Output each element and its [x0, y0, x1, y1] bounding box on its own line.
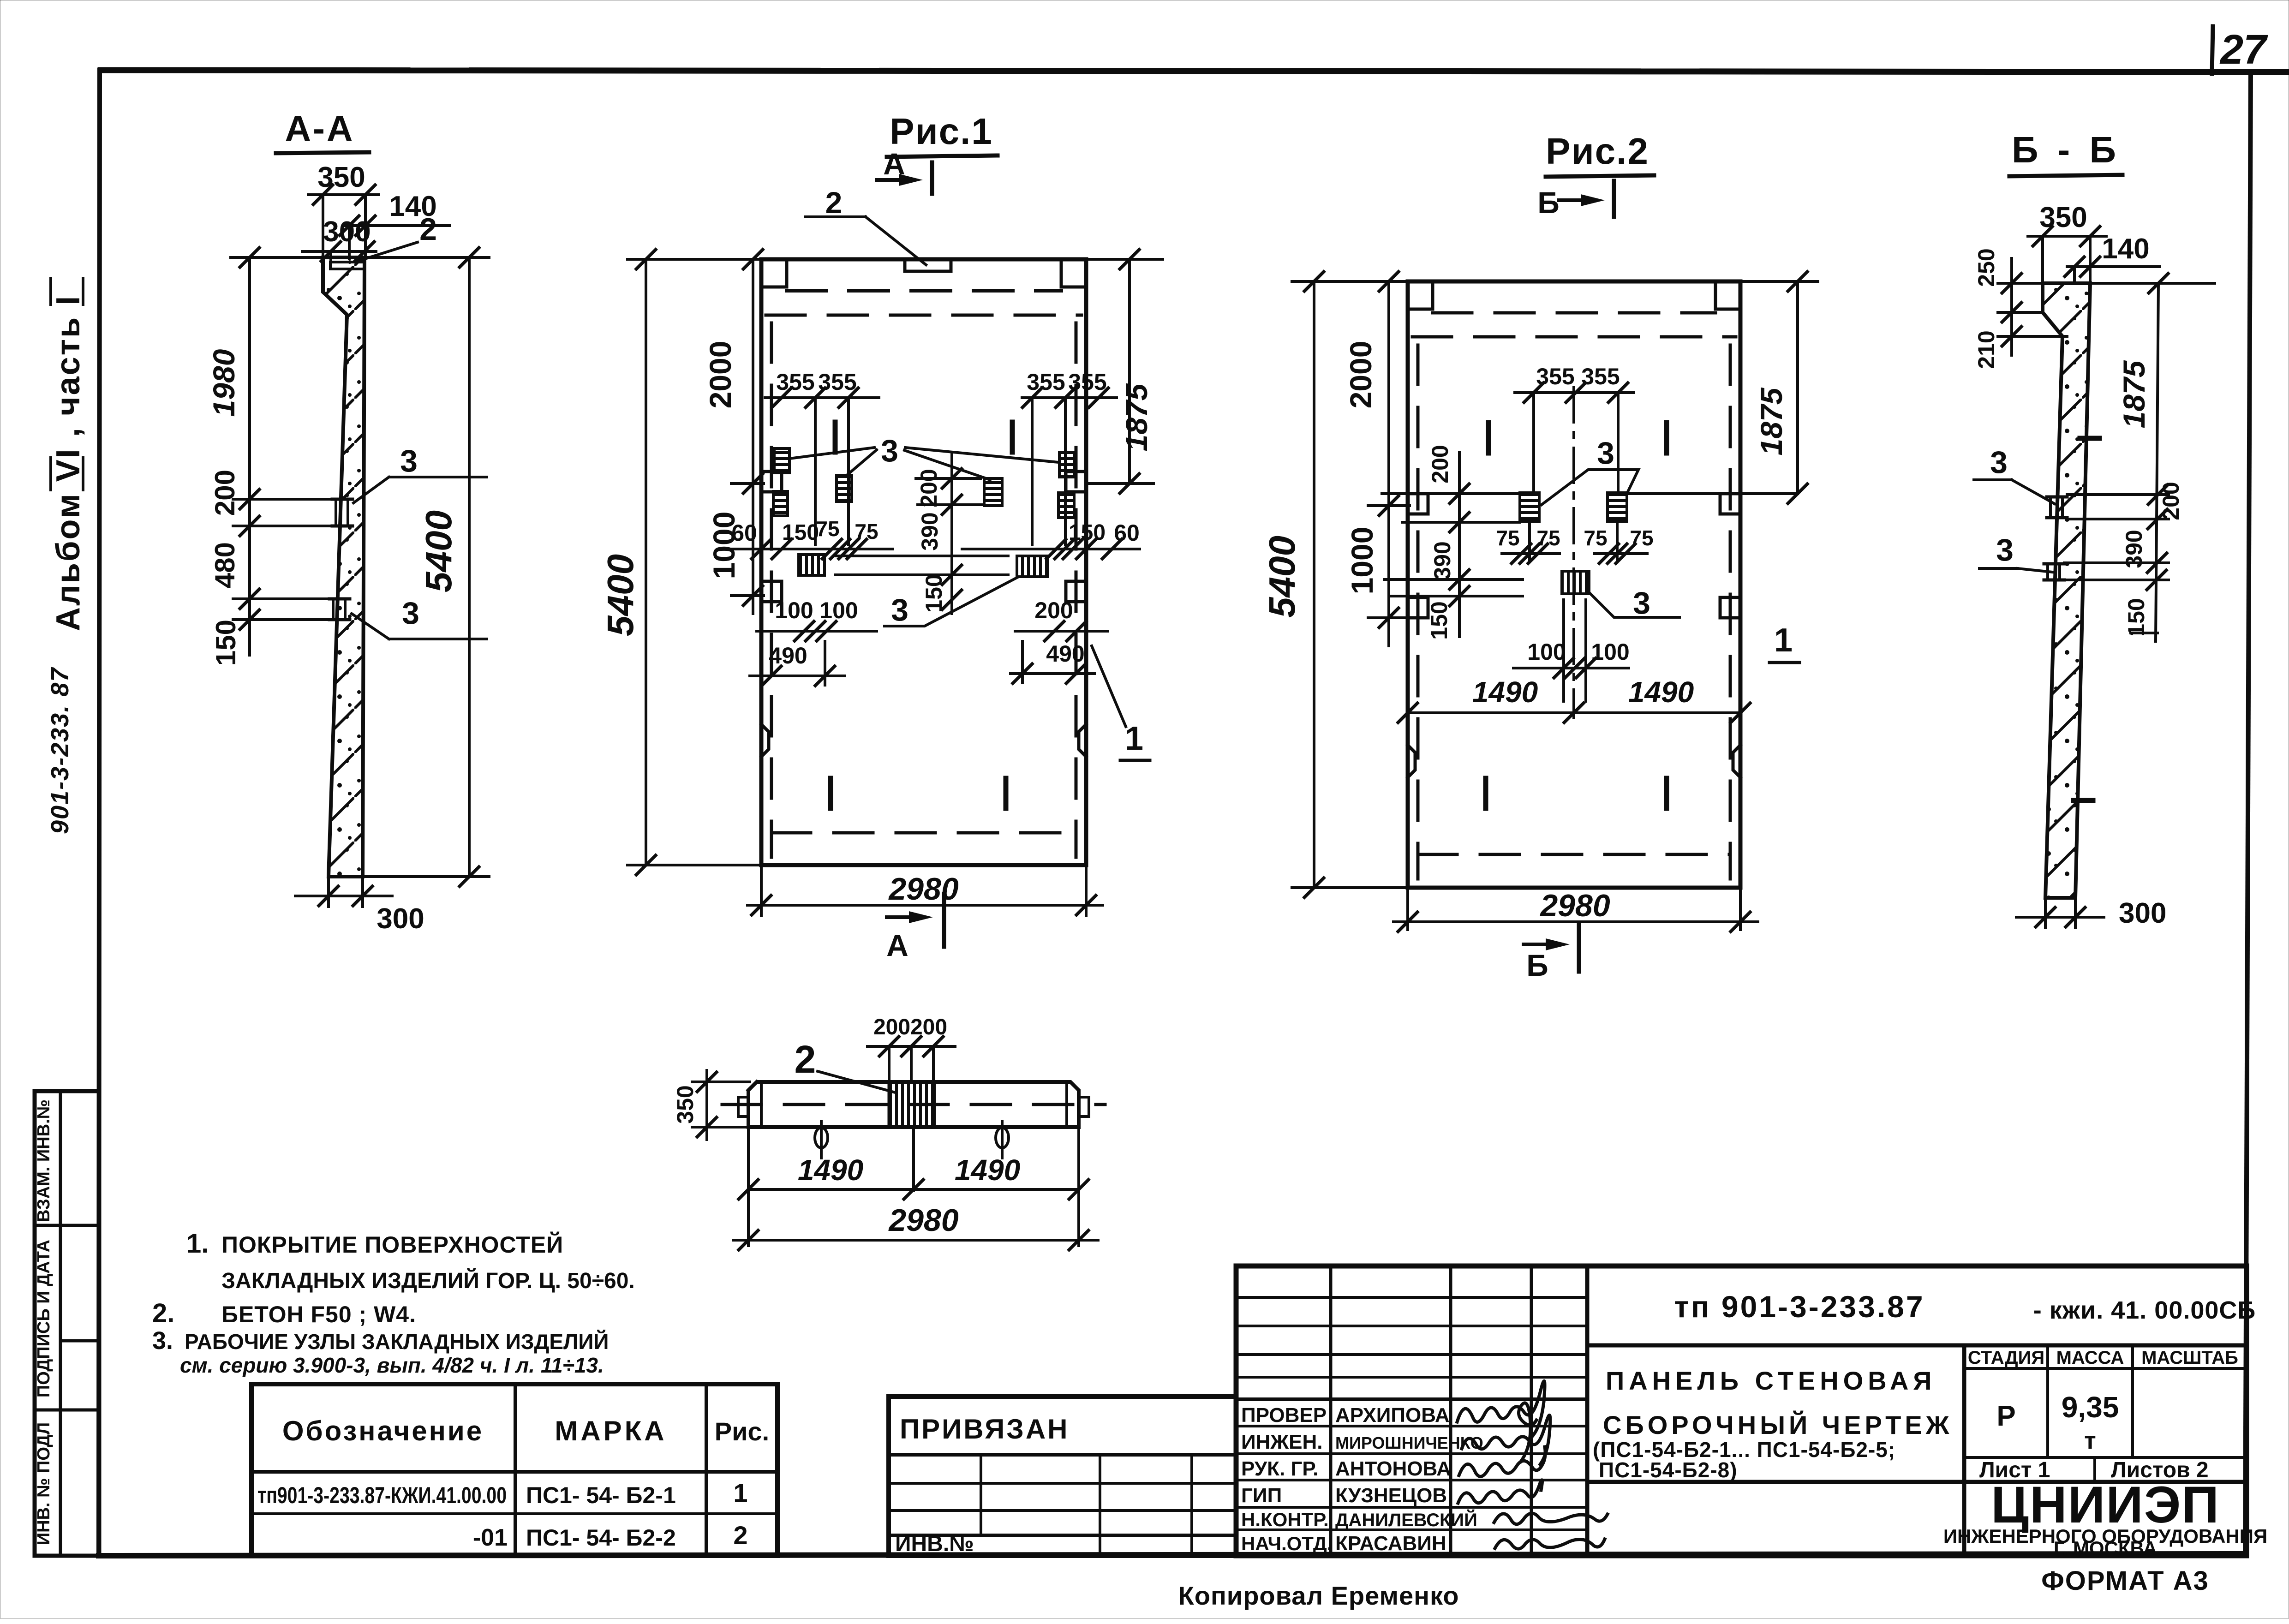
svg-text:БЕТОН F50 ; W4.: БЕТОН F50 ; W4.	[221, 1302, 416, 1327]
svg-text:АНТОНОВА: АНТОНОВА	[1335, 1457, 1451, 1480]
svg-text:3: 3	[1996, 532, 2014, 567]
left outer dimension 5400	[1261, 272, 1408, 897]
section mark B top	[1537, 181, 1614, 220]
svg-text:3.: 3.	[152, 1327, 173, 1355]
dimension 100 100	[1513, 600, 1630, 701]
bottom dimension 2980	[747, 867, 1103, 916]
svg-text:150: 150	[210, 620, 241, 666]
svg-text:Б - Б: Б - Б	[2012, 129, 2121, 170]
center vertical dimension 200 390 150	[835, 454, 1008, 614]
embed plates item 3 row upper	[773, 448, 1075, 518]
left margin album text	[50, 278, 87, 631]
label 3 lower with leader	[885, 578, 1017, 627]
embed plates item 3 row middle vertical hatch	[799, 555, 1047, 577]
bottom dimension 2980	[1393, 888, 1758, 931]
svg-text:3: 3	[402, 596, 419, 631]
svg-text:А: А	[886, 928, 908, 962]
stage mass scale header	[1964, 1345, 2247, 1457]
svg-text:Обозначение: Обозначение	[282, 1415, 484, 1446]
svg-text:2000: 2000	[703, 341, 737, 409]
title block signature grid	[1236, 1266, 1587, 1556]
svg-text:300: 300	[377, 903, 424, 935]
signature names	[1335, 1404, 1483, 1555]
svg-text:200: 200	[2158, 482, 2184, 520]
sheet number 27	[2212, 26, 2268, 74]
svg-text:РАБОЧИЕ УЗЛЫ ЗАКЛАДНЫХ ИЗДЕ: РАБОЧИЕ УЗЛЫ ЗАКЛАДНЫХ ИЗДЕЛИЙ	[185, 1330, 609, 1354]
svg-text:3: 3	[1597, 436, 1614, 471]
svg-text:ПС1- 54- Б2-1: ПС1- 54- Б2-1	[526, 1482, 676, 1508]
svg-text:355: 355	[1581, 364, 1620, 389]
left margin stamp boxes	[34, 1091, 99, 1556]
svg-text:75: 75	[816, 517, 839, 541]
svg-text:СБОРОЧНЫЙ ЧЕРТЕЖ: СБОРОЧНЫЙ ЧЕРТЕЖ	[1603, 1410, 1953, 1439]
dimension 100 100 left	[757, 597, 877, 641]
svg-text:1875: 1875	[1119, 383, 1153, 451]
svg-text:2: 2	[419, 212, 437, 247]
figure Ris.1 title	[887, 111, 998, 157]
svg-text:МАССА: МАССА	[2056, 1348, 2124, 1368]
svg-text:ГИП: ГИП	[1241, 1484, 1282, 1507]
svg-text:200: 200	[209, 470, 240, 516]
svg-text:3: 3	[891, 592, 908, 627]
dimension 490 left	[750, 641, 844, 686]
svg-text:КУЗНЕЦОВ: КУЗНЕЦОВ	[1335, 1484, 1447, 1507]
svg-text:1: 1	[1774, 622, 1793, 659]
label 3 upper with leader	[1974, 445, 2055, 504]
left inner dimension 200 390 150	[1382, 445, 1795, 639]
dimension 350 left	[672, 1070, 750, 1140]
dimension row 60 150 75 75 left	[729, 517, 893, 559]
dimension 75 75 pairs	[1496, 521, 1653, 563]
svg-text:Г. МОСКВА: Г. МОСКВА	[2054, 1537, 2157, 1559]
svg-text:-01: -01	[473, 1524, 508, 1551]
left dimensions 250 210	[1973, 248, 2067, 369]
right dimension 1875	[1740, 272, 1818, 503]
svg-text:РУК. ГР.: РУК. ГР.	[1241, 1457, 1318, 1480]
designation table	[251, 1384, 777, 1556]
svg-text:390: 390	[1429, 541, 1455, 579]
plan view of panel	[672, 1015, 1105, 1250]
right dimensions 390 150	[2064, 530, 2169, 636]
svg-text:2.: 2.	[152, 1298, 174, 1328]
svg-text:см. серию 3.900-3, вып. 4/82: см. серию 3.900-3, вып. 4/82 ч. I л. 11÷…	[180, 1353, 604, 1377]
svg-text:390: 390	[917, 512, 943, 550]
svg-text:Рис.2: Рис.2	[1546, 131, 1649, 172]
svg-text:150: 150	[921, 574, 947, 612]
label 3 upper with leader	[353, 443, 487, 503]
section B-B title	[2009, 129, 2122, 176]
bottom captions	[1178, 1566, 2209, 1610]
svg-text:тп901-3-233.87-КЖИ.41.00.00: тп901-3-233.87-КЖИ.41.00.00	[257, 1482, 507, 1508]
svg-text:ПС1- 54- Б2-2: ПС1- 54- Б2-2	[526, 1525, 676, 1551]
dimension 2980	[734, 1203, 1098, 1250]
svg-text:ИНВ. № ПОДЛ: ИНВ. № ПОДЛ	[34, 1422, 54, 1545]
svg-text:5400: 5400	[600, 554, 641, 636]
dimension 350 top	[2028, 202, 2106, 281]
svg-text:100: 100	[819, 597, 858, 623]
svg-text:1490: 1490	[1472, 675, 1538, 709]
svg-text:480: 480	[209, 542, 240, 588]
svg-text:Н.КОНТР.: Н.КОНТР.	[1241, 1509, 1329, 1530]
svg-text:3: 3	[1633, 585, 1650, 621]
section mark A top	[877, 147, 932, 194]
panel Fig1 dashed face lines	[766, 291, 1082, 857]
svg-text:- кжи. 41. 00.00СБ: - кжи. 41. 00.00СБ	[2033, 1296, 2256, 1324]
label 3 upper with leaders	[789, 433, 1058, 480]
label 2 with leader	[795, 1038, 895, 1093]
svg-text:350: 350	[317, 161, 365, 193]
dimension 200 right	[1015, 597, 1107, 641]
right dimension 5400	[364, 248, 489, 886]
svg-text:355: 355	[1027, 369, 1065, 395]
svg-text:1490: 1490	[798, 1153, 863, 1187]
svg-text:1: 1	[1125, 720, 1143, 757]
svg-text:1980: 1980	[207, 349, 241, 417]
svg-text:2: 2	[733, 1521, 747, 1550]
embed plates item 3	[1520, 493, 1627, 594]
svg-text:901-3-233. 87: 901-3-233. 87	[46, 667, 74, 834]
notes text block	[152, 1229, 635, 1377]
svg-text:1: 1	[733, 1478, 747, 1507]
svg-text:МАСШТАБ: МАСШТАБ	[2141, 1348, 2238, 1368]
label 1 underlined	[1769, 622, 1799, 663]
svg-text:ИНВ.№: ИНВ.№	[895, 1532, 974, 1556]
svg-text:ВЗАМ. ИНВ.№: ВЗАМ. ИНВ.№	[34, 1099, 54, 1222]
bottom dimension 300	[2016, 897, 2166, 929]
panel Fig2 edge keyways	[1408, 494, 1740, 777]
embed item 3 lower	[2044, 564, 2064, 580]
svg-text:НАЧ.ОТД.: НАЧ.ОТД.	[1241, 1533, 1333, 1554]
label 3 lower with leader	[1979, 532, 2052, 572]
svg-text:350: 350	[2039, 202, 2087, 233]
svg-text:75: 75	[1536, 526, 1560, 550]
svg-text:ПС1-54-Б2-8): ПС1-54-Б2-8)	[1599, 1458, 1738, 1482]
svg-text:т: т	[2084, 1427, 2096, 1454]
figure Ris.1	[600, 111, 1163, 962]
dimension 200 200 top	[867, 1015, 955, 1082]
svg-text:Б: Б	[1537, 185, 1559, 220]
svg-text:355: 355	[776, 369, 814, 395]
svg-text:ПАНЕЛЬ СТЕНОВАЯ: ПАНЕЛЬ СТЕНОВАЯ	[1606, 1366, 1936, 1395]
svg-text:1000: 1000	[1345, 527, 1379, 595]
right dimension 200	[2067, 482, 2184, 520]
dimension 355 355 right pair	[1022, 369, 1117, 544]
label 2 with leader	[356, 212, 437, 262]
svg-text:1.: 1.	[186, 1229, 209, 1259]
dimension 140 top	[340, 191, 450, 258]
plan center embed hatch block	[889, 1082, 934, 1127]
left outer dimension 5400	[600, 250, 761, 875]
plan outline	[738, 1082, 1089, 1127]
privyazan table	[889, 1397, 1236, 1556]
svg-text:2: 2	[825, 185, 843, 220]
svg-text:250: 250	[1973, 248, 1999, 287]
bottom dimension 300	[295, 878, 424, 935]
dimension 140 top	[2065, 233, 2159, 283]
section mark B bottom	[1524, 923, 1579, 982]
dimension 300 top	[302, 216, 376, 261]
label 3 upper with leaders	[1542, 436, 1638, 505]
figure Ris.2 title	[1546, 131, 1654, 177]
svg-text:27: 27	[2219, 27, 2268, 73]
svg-text:200: 200	[1427, 445, 1453, 483]
left dimension chain 2000 1000	[1344, 272, 1410, 646]
section B-B	[1973, 129, 2215, 929]
svg-text:тп 901-3-233.87: тп 901-3-233.87	[1674, 1290, 1924, 1324]
document number row	[1587, 1290, 2256, 1345]
svg-text:200: 200	[873, 1015, 910, 1039]
svg-text:ЗАКЛАДНЫХ ИЗДЕЛИЙ ГОР. Ц. 50: ЗАКЛАДНЫХ ИЗДЕЛИЙ ГОР. Ц. 50÷60.	[221, 1268, 635, 1293]
svg-text:АРХИПОВА: АРХИПОВА	[1335, 1404, 1450, 1427]
svg-text:ДАНИЛЕВСКИЙ: ДАНИЛЕВСКИЙ	[1335, 1509, 1477, 1530]
svg-text:Рис.1: Рис.1	[890, 111, 993, 152]
svg-text:2980: 2980	[888, 872, 958, 907]
svg-text:3: 3	[1990, 445, 2008, 480]
svg-text:1875: 1875	[1754, 387, 1788, 455]
section B-B concrete body	[2043, 283, 2090, 898]
right dimension 1875	[1086, 250, 1163, 493]
svg-text:1875: 1875	[2117, 360, 2151, 428]
svg-text:2000: 2000	[1344, 341, 1378, 409]
dimension 350 top	[308, 161, 378, 257]
face tick marks	[831, 422, 1012, 808]
svg-text:МАРКА: МАРКА	[555, 1415, 667, 1446]
svg-text:А-А: А-А	[285, 108, 355, 149]
svg-text:1490: 1490	[1628, 675, 1694, 709]
drawing title text	[1587, 1345, 2247, 1556]
section A-A concrete body	[323, 257, 365, 877]
dimension 490 right	[1010, 641, 1094, 683]
panel Fig2 outline	[1408, 281, 1740, 888]
label 1 with leader	[1092, 646, 1150, 760]
svg-text:ПРИВЯЗАН: ПРИВЯЗАН	[900, 1414, 1069, 1445]
svg-text:200: 200	[916, 469, 942, 507]
section A-A	[207, 108, 489, 935]
section mark A bottom	[886, 894, 944, 962]
panel Fig1 outline	[761, 259, 1086, 865]
svg-text:100: 100	[1527, 639, 1566, 665]
svg-text:1490: 1490	[955, 1153, 1020, 1187]
svg-text:ПОДПИСЬ И ДАТА: ПОДПИСЬ И ДАТА	[34, 1240, 54, 1397]
svg-text:350: 350	[672, 1085, 698, 1123]
svg-text:ИНЖЕН.: ИНЖЕН.	[1241, 1431, 1323, 1453]
svg-text:КРАСАВИН: КРАСАВИН	[1335, 1532, 1446, 1555]
svg-text:2980: 2980	[1539, 888, 1610, 923]
svg-text:ПРОВЕР: ПРОВЕР	[1241, 1404, 1327, 1427]
svg-text:300: 300	[2119, 897, 2166, 929]
svg-text:Рис.: Рис.	[715, 1417, 769, 1446]
svg-text:490: 490	[769, 643, 807, 669]
svg-text:3: 3	[400, 443, 418, 478]
panel Fig1 edge keyways	[761, 472, 1086, 757]
left margin project number text	[46, 667, 74, 834]
face tick marks	[1486, 423, 1667, 808]
svg-text:Р: Р	[1996, 1400, 2015, 1432]
label 2 with leader to top notch	[806, 185, 926, 265]
signature squiggles	[1457, 1381, 1608, 1549]
svg-text:75: 75	[1584, 526, 1607, 550]
embed item 3 lower in section	[329, 599, 350, 620]
svg-text:300: 300	[323, 216, 371, 248]
svg-text:490: 490	[1046, 641, 1084, 667]
figure Ris.2	[1261, 131, 1818, 982]
dimension 355 355	[1515, 364, 1633, 492]
svg-text:1000: 1000	[707, 512, 741, 579]
face marks	[2074, 438, 2099, 800]
title block	[1236, 1266, 2267, 1559]
svg-text:2980: 2980	[888, 1203, 958, 1238]
svg-text:2: 2	[795, 1038, 816, 1081]
svg-text:100: 100	[775, 597, 813, 623]
embed item 3 upper	[2047, 497, 2067, 518]
svg-text:ФОРМАТ А3: ФОРМАТ А3	[2041, 1566, 2209, 1596]
svg-text:75: 75	[1496, 526, 1519, 550]
svg-text:150: 150	[1426, 601, 1452, 639]
label 3 lower with leader	[1589, 585, 1679, 621]
left dimension chain 1980 200 480 150	[207, 248, 341, 666]
svg-text:100: 100	[1591, 639, 1629, 665]
svg-text:5400: 5400	[418, 510, 459, 592]
list row	[1964, 1457, 2247, 1482]
svg-text:Б: Б	[1526, 948, 1548, 982]
organization name	[1943, 1476, 2267, 1559]
panel Fig2 centerline	[1572, 388, 1575, 717]
embed item 3 upper in section	[332, 499, 353, 526]
svg-text:Альбом VI , часть I: Альбом VI , часть I	[50, 295, 87, 631]
svg-text:ПОКРЫТИЕ ПОВЕРХНОСТЕЙ: ПОКРЫТИЕ ПОВЕРХНОСТЕЙ	[221, 1231, 563, 1258]
dimension row 150 60 right	[962, 520, 1140, 559]
svg-text:140: 140	[2102, 233, 2149, 265]
svg-text:Копировал Еременко: Копировал Еременко	[1178, 1581, 1459, 1610]
dimension 1490 1490	[1398, 675, 1750, 722]
lifting hook left	[815, 1121, 828, 1158]
left dimension chain 2000 1000	[703, 250, 764, 614]
dimension 1490 1490	[739, 1129, 1088, 1246]
lifting hook right	[996, 1121, 1009, 1158]
section A-A title	[276, 108, 369, 153]
plan centerline dashed	[722, 1103, 1105, 1106]
signature labels	[1241, 1404, 1333, 1554]
label 3 lower with leader	[352, 596, 487, 639]
svg-text:СТАДИЯ: СТАДИЯ	[1968, 1348, 2044, 1368]
dimension 355 355 left pair	[765, 369, 879, 544]
right dimension 1875	[2090, 274, 2215, 641]
svg-text:3: 3	[881, 433, 898, 468]
svg-text:200: 200	[1034, 597, 1073, 623]
svg-text:5400: 5400	[1261, 536, 1303, 618]
svg-text:150: 150	[2123, 598, 2149, 636]
svg-text:390: 390	[2121, 530, 2147, 568]
svg-text:9,35: 9,35	[2062, 1391, 2119, 1424]
panel Fig2 dashed face lines	[1412, 313, 1736, 879]
svg-text:210: 210	[1973, 330, 1999, 369]
